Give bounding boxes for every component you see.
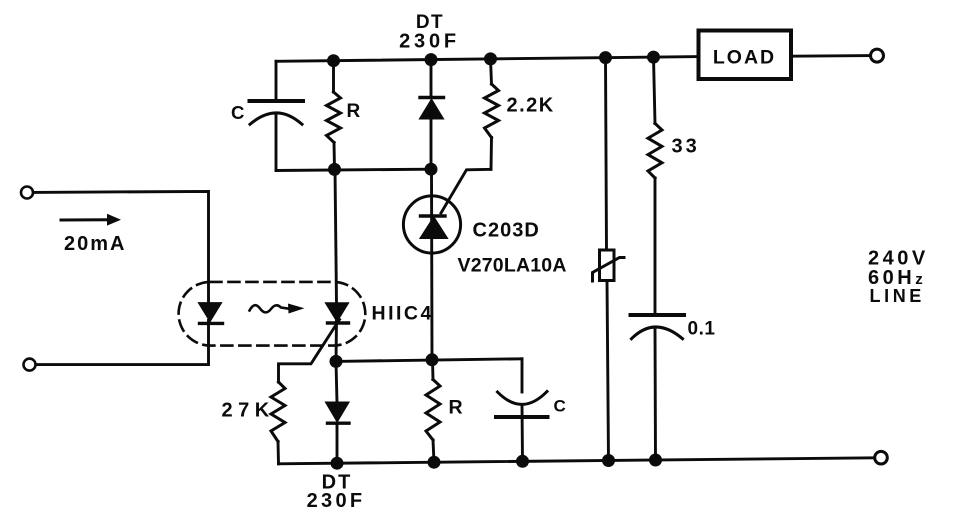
resistor R (bottom) zigzag <box>426 380 440 441</box>
capacitor 0.1 lower lead <box>654 327 657 460</box>
SCR C203D circle <box>403 196 460 253</box>
capacitor 0.1 curved plate <box>632 327 683 339</box>
junction node R2 bottom rail <box>428 456 441 469</box>
wire bottom rail <box>279 458 875 464</box>
svg-text:R: R <box>449 397 463 419</box>
svg-text:C203D: C203D <box>473 220 540 242</box>
junction node 2.2K top rail <box>484 52 497 65</box>
wire C (bottom) from mid rail corner down <box>521 359 524 392</box>
resistor R (bottom) lower lead <box>433 440 434 462</box>
diode DT 230F (bottom) cathode bar <box>328 422 350 425</box>
capacitor C (top-left) lower lead <box>275 113 278 171</box>
SCR C203D triangle <box>422 218 447 237</box>
resistor R (top) leads <box>332 61 335 92</box>
wire opto detector cathode down to node <box>335 321 338 362</box>
junction node R top rail <box>327 54 340 67</box>
resistor R (top) lower lead <box>333 143 336 170</box>
resistor 33 zigzag <box>648 123 662 178</box>
photo-SCR (opto detector) triangle <box>327 303 348 320</box>
resistor 27K lower lead to bottom rail <box>277 442 280 464</box>
diode DT 230F (bottom) triangle <box>327 403 348 420</box>
current direction arrow 20mA <box>61 218 108 221</box>
junction node varistor bottom rail <box>602 454 615 467</box>
SCR C203D cathode bar <box>421 214 446 217</box>
junction node opto cathode <box>330 355 343 368</box>
svg-text:0.1: 0.1 <box>688 319 716 340</box>
svg-text:230F: 230F <box>307 490 366 512</box>
wire top rail (left section to LOAD) <box>276 57 699 62</box>
capacitor 0.1 straight plate <box>631 313 685 317</box>
junction node DT top rail <box>425 53 438 66</box>
SCR C203D gate wire to 2.2K <box>441 169 491 213</box>
capacitor C (top-left) curved plate <box>250 113 302 124</box>
svg-text:LOAD: LOAD <box>713 47 776 69</box>
optocoupler H11C4 dashed outline <box>179 282 366 346</box>
capacitor C (top-left) straight plate <box>250 99 304 103</box>
wire input vertical through LED to bottom input wire <box>36 321 209 365</box>
resistor 2.2K upper lead <box>491 59 492 84</box>
terminal output bottom-right <box>875 451 888 464</box>
svg-text:20mA: 20mA <box>64 233 126 255</box>
svg-text:V270LA10A: V270LA10A <box>458 255 567 277</box>
junction node 0.1 bottom rail <box>649 454 662 467</box>
resistor 2.2K lower lead <box>490 138 493 170</box>
resistor 2.2K zigzag <box>485 84 499 138</box>
resistor 27K gate wire from opto detector <box>279 320 340 383</box>
photo-SCR (opto detector) cathode bar <box>328 321 349 324</box>
svg-text:C: C <box>554 397 566 416</box>
diode DT 230F (bottom) lower lead <box>336 423 339 463</box>
LED (opto emitter) triangle <box>200 303 221 320</box>
diode DT 230F (top) lower lead <box>430 118 433 169</box>
resistor 27K zigzag <box>271 382 285 442</box>
wire mid rail y360 (SCR cathode bus) <box>336 359 522 362</box>
svg-text:33: 33 <box>672 135 700 157</box>
wire mid rail y169 (C/R bottom bus) <box>276 169 431 170</box>
LED (opto emitter) cathode bar <box>200 322 223 325</box>
junction node DT bottom mid rail <box>425 163 438 176</box>
resistor R (bottom) upper lead <box>431 360 434 380</box>
terminal output top-right <box>871 49 884 62</box>
varistor V270LA10A diagonal stroke <box>593 258 625 282</box>
svg-text:27K: 27K <box>222 400 275 422</box>
capacitor C (top-left) left branch upper lead <box>275 61 278 101</box>
diode DT 230F (bottom, pointing down) upper lead <box>336 361 337 403</box>
svg-text:HIIC4: HIIC4 <box>372 303 434 325</box>
svg-text:LINE: LINE <box>870 286 925 306</box>
diode DT 230F (top) cathode bar <box>420 96 444 99</box>
diode DT 230F (top, pointing up) upper lead <box>430 60 433 98</box>
junction node DT2 bottom rail <box>331 457 344 470</box>
light transfer wavy arrow <box>250 305 288 312</box>
wire input top (from left terminal, bends down) <box>33 191 209 303</box>
SCR C203D anode lead <box>430 169 433 360</box>
capacitor C (bottom) straight plate <box>496 415 548 419</box>
diode DT 230F (top) triangle <box>421 101 442 118</box>
terminal input top-left <box>21 187 33 199</box>
wire left chain from mid rail down to opto detector <box>335 169 337 303</box>
svg-text:2.2K: 2.2K <box>507 95 555 117</box>
varistor V270LA10A upper lead <box>606 58 607 250</box>
capacitor C (bottom) curved plate <box>498 392 548 405</box>
junction node SCR cathode <box>426 353 439 366</box>
resistor 33 lower lead <box>654 178 657 315</box>
wire top rail (LOAD to output terminal) <box>791 54 871 58</box>
varistor V270LA10A body <box>600 250 615 281</box>
junction node C2 bottom rail <box>516 455 529 468</box>
varistor V270LA10A lower lead <box>607 281 609 461</box>
resistor R (top) zigzag <box>327 92 341 143</box>
LOAD box <box>699 31 792 80</box>
capacitor C (bottom) lower lead <box>521 405 524 462</box>
resistor 33 upper lead <box>654 57 656 123</box>
svg-text:C: C <box>231 102 244 123</box>
terminal input bottom-left <box>24 359 36 371</box>
junction node 33 top rail <box>647 51 660 64</box>
junction node R bottom mid rail <box>328 163 341 176</box>
junction node varistor top rail <box>599 51 612 64</box>
svg-text:230F: 230F <box>399 31 460 53</box>
svg-text:R: R <box>347 101 361 122</box>
